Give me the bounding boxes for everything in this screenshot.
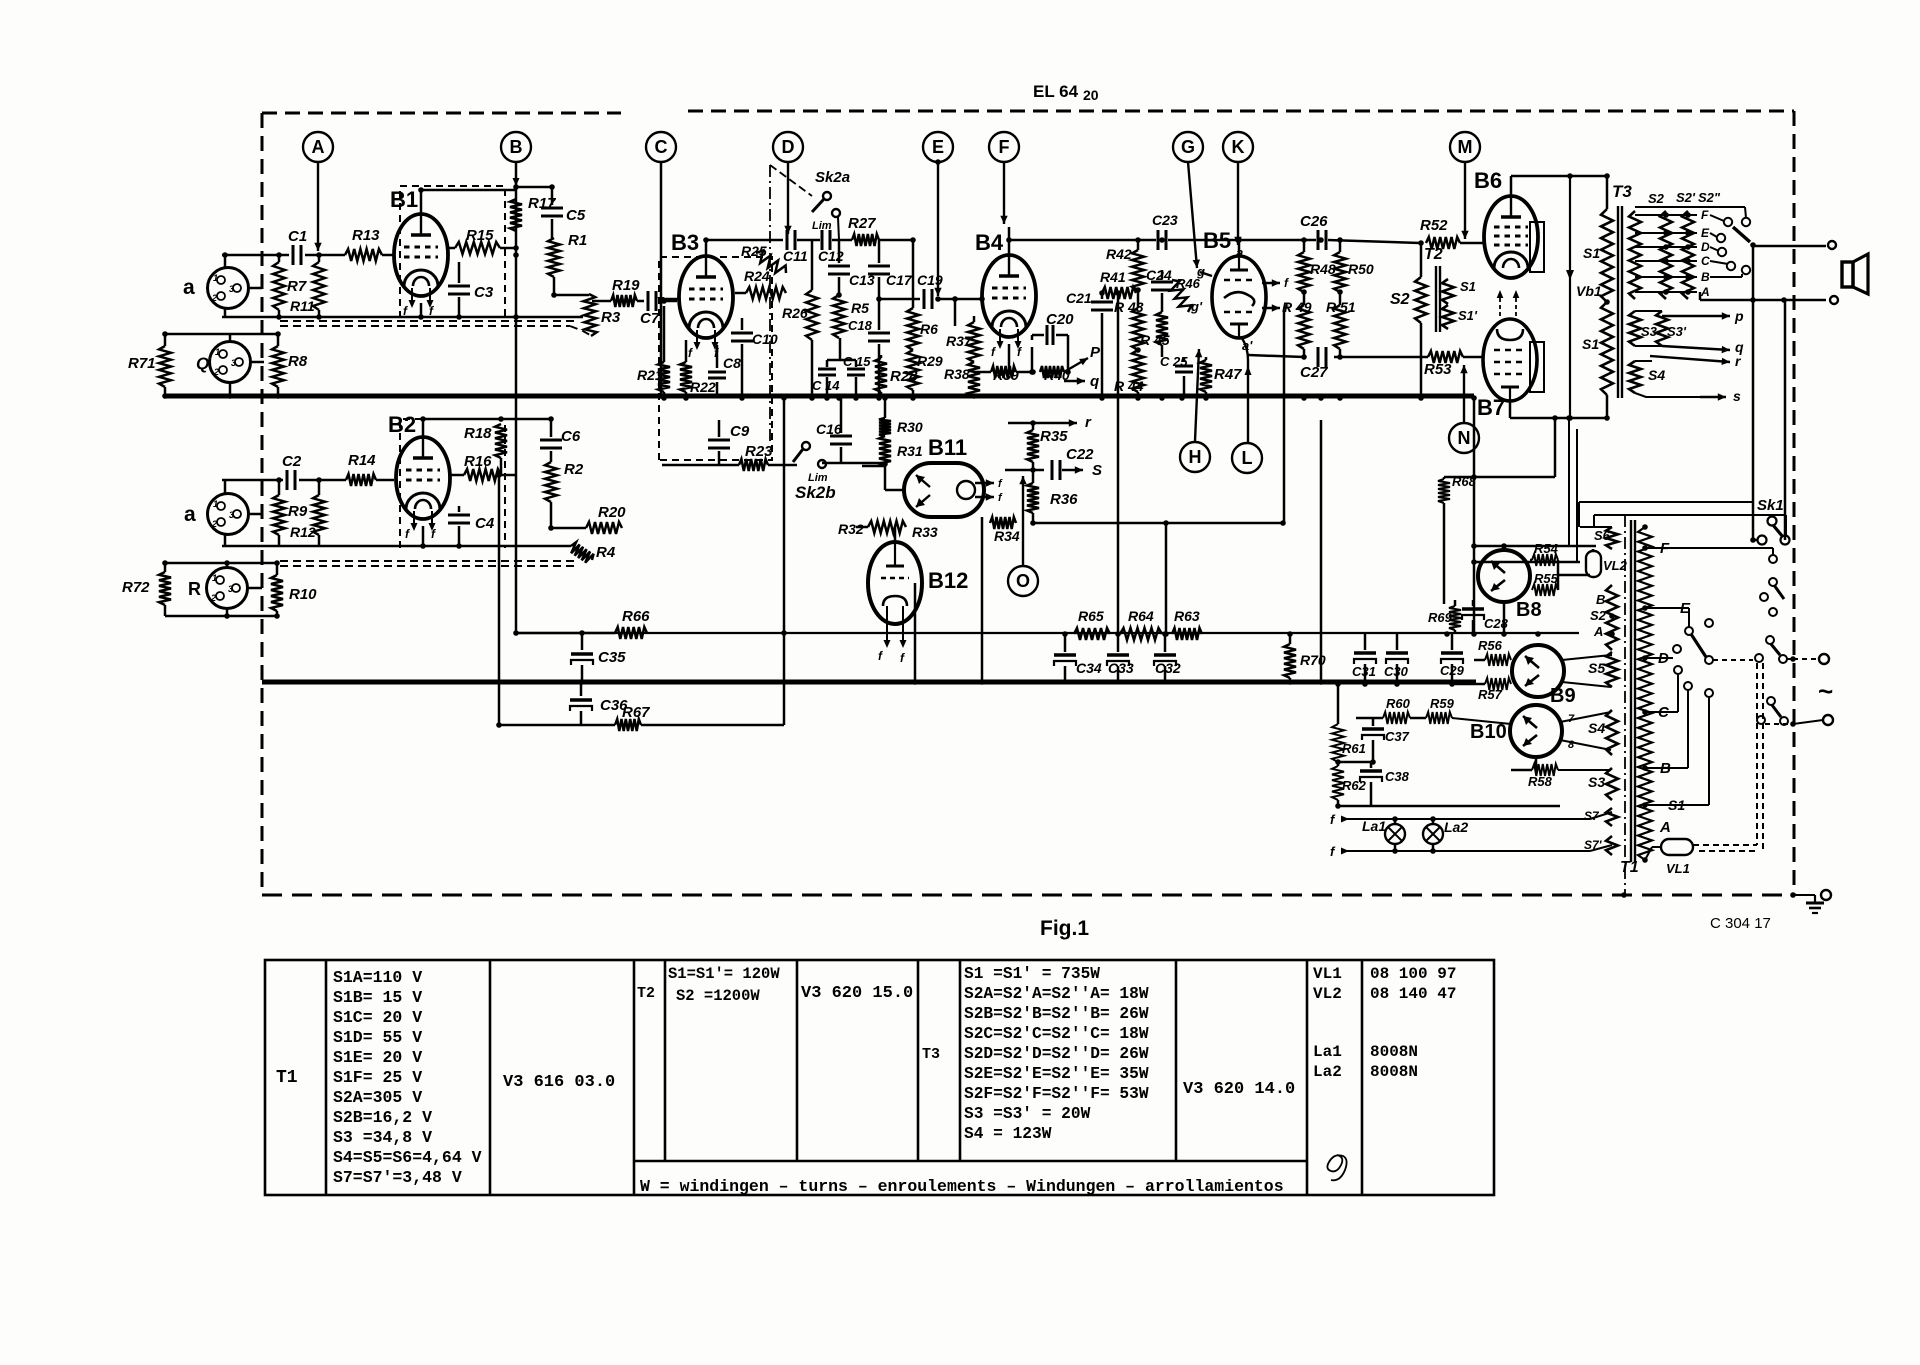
svg-text:EL 64: EL 64 [1033, 82, 1079, 101]
resistor R7 [278, 255, 281, 262]
ground symbol [1793, 894, 1815, 896]
svg-text:C36: C36 [600, 697, 628, 714]
svg-text:R29: R29 [917, 353, 943, 369]
wire y562 [1474, 561, 1580, 564]
svg-text:R59: R59 [1430, 696, 1455, 711]
svg-text:La2: La2 [1444, 819, 1468, 835]
svg-text:A: A [1659, 819, 1671, 836]
node B stem [515, 162, 518, 633]
svg-text:B4: B4 [975, 230, 1004, 255]
B6 beam plate rect [1530, 222, 1544, 272]
resistor R19 [592, 300, 611, 303]
svg-text:3: 3 [231, 358, 236, 368]
capacitor C8 [716, 345, 719, 368]
svg-text:La2: La2 [1313, 1063, 1342, 1081]
svg-text:S1D= 55 V: S1D= 55 V [333, 1028, 422, 1047]
svg-text:R70: R70 [1300, 652, 1326, 668]
resistor R33 [856, 526, 868, 529]
tube B1 [394, 214, 448, 318]
output selector contacts [1724, 218, 1732, 226]
svg-text:A: A [312, 137, 325, 157]
capacitor C17 [878, 240, 881, 263]
resistor R67 [615, 719, 641, 731]
svg-text:a: a [1236, 245, 1243, 260]
resistor R22 [685, 340, 688, 362]
svg-text:S4: S4 [1648, 367, 1665, 383]
svg-text:F: F [999, 137, 1010, 157]
capacitor C1 [292, 245, 295, 265]
resistor R4 [571, 542, 594, 563]
wire T1 tap E [1645, 607, 1689, 609]
resistor R35 [1027, 430, 1039, 462]
svg-text:B6: B6 [1474, 168, 1502, 193]
svg-text:C 15: C 15 [843, 354, 871, 369]
svg-text:D: D [1701, 240, 1710, 254]
arrow q [1064, 380, 1085, 382]
svg-text:~: ~ [1818, 676, 1833, 706]
resistor R15 [448, 247, 455, 250]
svg-text:S4: S4 [1588, 720, 1605, 736]
vertical output wires down [1752, 246, 1755, 540]
svg-text:S3 =S3' = 20W: S3 =S3' = 20W [964, 1105, 1091, 1123]
wire T1 tap D [1645, 657, 1673, 659]
resistor R29 [907, 350, 919, 390]
capacitor C9 [718, 420, 721, 437]
svg-text:R36: R36 [1050, 491, 1078, 508]
capacitor C6 [550, 419, 553, 437]
resistor R23 [662, 464, 739, 467]
resistor R47 [1205, 357, 1208, 360]
svg-text:C1: C1 [288, 228, 307, 245]
node A [303, 132, 333, 162]
capacitor C10 [741, 318, 744, 330]
svg-text:S1A=110 V: S1A=110 V [333, 968, 422, 987]
svg-text:1: 1 [212, 573, 217, 583]
resistor R37 [973, 316, 976, 322]
svg-text:R28: R28 [890, 368, 918, 385]
svg-text:S6: S6 [1594, 528, 1611, 543]
dashed box B3 [659, 257, 772, 460]
resistor R50 [1339, 240, 1342, 252]
svg-text:Q: Q [196, 354, 209, 373]
svg-text:C30: C30 [1384, 664, 1409, 679]
svg-text:B1: B1 [390, 187, 418, 212]
svg-text:N: N [1458, 428, 1471, 448]
lower supply bus y=682 [262, 680, 1476, 685]
resistor R40 [1040, 366, 1064, 378]
svg-text:Sk1: Sk1 [1757, 497, 1784, 514]
lamp La1 [1385, 824, 1405, 844]
svg-text:R22: R22 [690, 379, 716, 395]
capacitor C5 [551, 187, 554, 205]
main bus 0V y=396 [165, 394, 1474, 399]
svg-text:R66: R66 [622, 608, 650, 625]
svg-text:p: p [1734, 308, 1744, 324]
resistor R55 [1532, 584, 1558, 596]
lamps rails [1350, 818, 1590, 820]
resistor R46 [1171, 280, 1192, 312]
data table [265, 960, 1494, 1195]
capacitor C37 [1372, 718, 1375, 726]
svg-text:R6: R6 [920, 321, 938, 337]
svg-text:R54: R54 [1534, 541, 1559, 556]
svg-text:R37: R37 [946, 333, 973, 349]
dashed enclosure border [262, 112, 621, 115]
svg-text:VL2: VL2 [1313, 985, 1342, 1003]
svg-text:a: a [183, 276, 195, 299]
svg-text:S1F= 25 V: S1F= 25 V [333, 1068, 422, 1087]
wire y357 [1248, 355, 1304, 357]
svg-text:W = windingen – turns – enroul: W = windingen – turns – enroulements – W… [640, 1177, 1284, 1196]
svg-text:1: 1 [213, 499, 218, 509]
node M [1450, 132, 1480, 162]
capacitor C3 [458, 262, 461, 283]
svg-text:B: B [1701, 270, 1710, 284]
B6 B7 filament dashed arrows [1499, 296, 1501, 316]
svg-text:R23: R23 [745, 443, 773, 460]
svg-text:R25: R25 [741, 243, 767, 259]
svg-text:R60: R60 [1386, 696, 1411, 711]
wire T1 tap F [1645, 547, 1773, 549]
wire B3 grid [661, 298, 679, 301]
capacitor C32 [1164, 634, 1167, 652]
T3 secondary S2 columns [1629, 211, 1641, 299]
resistor R39 [974, 371, 991, 374]
wire B3 plate top [705, 240, 708, 256]
svg-text:S5: S5 [1588, 660, 1605, 676]
resistor R16 [451, 474, 464, 477]
wire y806 [1338, 805, 1560, 808]
svg-text:R41: R41 [1100, 269, 1126, 285]
svg-text:C32: C32 [1155, 660, 1181, 676]
node O stem [1022, 476, 1024, 565]
resistor R9 [278, 480, 281, 495]
vertical x784 [783, 398, 786, 725]
capacitor C29 [1451, 634, 1454, 650]
svg-text:B8: B8 [1516, 599, 1542, 621]
svg-text:C 25: C 25 [1160, 354, 1188, 369]
capacitor C27 [1317, 347, 1320, 367]
node E stem [937, 162, 939, 296]
svg-text:S7=S7'=3,48 V: S7=S7'=3,48 V [333, 1168, 462, 1187]
resistor R24 [735, 292, 746, 295]
mech dash-dot link Sk2 [769, 165, 771, 445]
svg-text:S2F=S2'F=S2''F= 53W: S2F=S2'F=S2''F= 53W [964, 1085, 1149, 1103]
svg-text:C6: C6 [561, 428, 581, 445]
svg-text:C 304 17: C 304 17 [1710, 915, 1771, 932]
resistor R71 [159, 346, 171, 387]
svg-text:R26: R26 [782, 305, 808, 321]
resistor R5 [833, 295, 845, 338]
tube B5 [1212, 256, 1266, 338]
capacitor C28 [1472, 600, 1475, 606]
svg-text:R30: R30 [897, 419, 923, 435]
resistor R43 [1137, 290, 1140, 308]
svg-text:S2B=S2'B=S2''B= 26W: S2B=S2'B=S2''B= 26W [964, 1005, 1149, 1023]
VL2 [1586, 551, 1601, 577]
wire B1 plate to top [420, 190, 423, 214]
svg-text:B: B [1596, 592, 1605, 607]
resistor R18 [495, 424, 507, 458]
resistor R48 [1303, 240, 1306, 252]
wire Q block [165, 333, 278, 336]
svg-text:B3: B3 [671, 230, 699, 255]
svg-text:C22: C22 [1066, 446, 1094, 463]
svg-text:C19: C19 [917, 272, 943, 288]
svg-text:C20: C20 [1046, 311, 1074, 328]
wire T1 tap B [1645, 767, 1688, 769]
capacitor C14 [826, 360, 829, 367]
svg-text:T1: T1 [1620, 859, 1639, 876]
svg-text:H: H [1189, 447, 1202, 467]
wire S out [1005, 469, 1044, 472]
node H stem [1195, 349, 1199, 441]
resistor R61 [1337, 684, 1340, 724]
tube B2 [396, 437, 450, 541]
svg-text:C11: C11 [783, 248, 808, 264]
node G stem [1188, 162, 1197, 268]
svg-text:g': g' [1190, 299, 1203, 314]
node C stem [660, 162, 663, 396]
capacitor C2 [286, 470, 289, 490]
node B [501, 132, 531, 162]
svg-text:C37: C37 [1385, 729, 1410, 744]
switch Sk2b [802, 442, 810, 450]
svg-text:C16: C16 [816, 421, 842, 437]
resistor R64 [1120, 628, 1162, 640]
svg-text:R69: R69 [1428, 610, 1453, 625]
capacitor C15 [839, 338, 842, 360]
svg-text:R10: R10 [289, 586, 317, 603]
lamp La2 [1423, 824, 1443, 844]
wire ch2 cathode rail y=546 [222, 545, 571, 548]
svg-text:P: P [1090, 344, 1101, 361]
wire output bottom y300 [1700, 299, 1826, 302]
svg-text:R39: R39 [993, 367, 1019, 383]
resistor R1 [548, 238, 560, 277]
svg-text:C5: C5 [566, 207, 586, 224]
svg-text:C4: C4 [475, 515, 495, 532]
svg-text:S2A=S2'A=S2''A= 18W: S2A=S2'A=S2''A= 18W [964, 985, 1149, 1003]
tube B8 [1478, 550, 1530, 602]
capacitor C24 [1161, 270, 1164, 279]
svg-text:R62: R62 [1342, 778, 1367, 793]
svg-text:R55: R55 [1534, 571, 1559, 586]
svg-text:1: 1 [213, 273, 218, 283]
svg-text:R27: R27 [848, 215, 876, 232]
svg-text:VL1: VL1 [1666, 861, 1690, 876]
tube B9 [1512, 645, 1564, 697]
resistor R60 [1356, 717, 1383, 720]
wire r arrow [1008, 422, 1033, 425]
resistor R31 [884, 398, 887, 418]
wire B7 plate bottom [1509, 401, 1512, 418]
svg-text:R56: R56 [1478, 638, 1503, 653]
resistor R11 [318, 255, 321, 262]
resistor R51 [1339, 292, 1342, 305]
capacitor C23 [1157, 230, 1160, 250]
svg-text:8: 8 [1568, 739, 1575, 751]
wire x1474 [1473, 398, 1476, 634]
svg-text:G: G [1181, 137, 1195, 157]
connector Q (ch1 aux input) [210, 342, 251, 383]
resistor R54 [1530, 559, 1532, 562]
svg-text:C31: C31 [1352, 664, 1376, 679]
node F [989, 132, 1019, 162]
svg-text:C17: C17 [886, 272, 913, 288]
wire B1 cathode stub [420, 303, 423, 317]
VL1 [1661, 839, 1693, 855]
node A stem [317, 162, 319, 251]
svg-text:C34: C34 [1076, 660, 1102, 676]
resistor R57 [1452, 683, 1485, 686]
resistor R8 [277, 334, 280, 346]
svg-text:C33: C33 [1108, 660, 1134, 676]
capacitor C25 [1183, 357, 1186, 362]
resistor R68 [1443, 477, 1446, 479]
svg-text:C27: C27 [1300, 364, 1328, 381]
svg-text:S1: S1 [1582, 336, 1599, 352]
resistor R44 [1132, 350, 1144, 392]
svg-text:1: 1 [215, 347, 220, 357]
wire B11 left [862, 465, 885, 468]
svg-text:S2A=305 V: S2A=305 V [333, 1088, 422, 1107]
wire to speaker terminal top [1752, 245, 1826, 248]
svg-text:S1': S1' [1458, 308, 1478, 323]
capacitor C13 [838, 240, 841, 263]
svg-text:C: C [1701, 254, 1710, 268]
resistor R17 (on B stem) [510, 199, 522, 231]
capacitor C36 [580, 682, 583, 696]
svg-text:08 100 97: 08 100 97 [1370, 965, 1456, 983]
svg-text:3: 3 [228, 584, 233, 594]
svg-text:R64: R64 [1128, 608, 1154, 624]
resistor R21 [663, 306, 666, 362]
resistor R34 [990, 517, 1016, 529]
svg-text:R61: R61 [1342, 741, 1366, 756]
node O [1008, 566, 1038, 596]
vertical from R18 area down to R67 wire [498, 470, 501, 725]
svg-text:R: R [188, 579, 201, 599]
capacitor C26 [1317, 230, 1320, 250]
svg-text:s: s [1733, 388, 1741, 404]
svg-text:2: 2 [211, 519, 217, 529]
resistor R41 [1102, 287, 1136, 299]
wire B12 top stub [894, 527, 897, 543]
svg-text:R13: R13 [352, 227, 380, 244]
resistor R25 [756, 251, 786, 274]
svg-text:S3: S3 [1588, 774, 1605, 790]
flourish glyph [1327, 1155, 1346, 1180]
svg-text:B7: B7 [1477, 395, 1505, 420]
svg-text:R4: R4 [596, 544, 616, 561]
svg-text:R8: R8 [288, 353, 308, 370]
capacitor C20 [1031, 347, 1034, 372]
wire coupling y=299 [879, 298, 920, 301]
svg-text:R9: R9 [288, 503, 308, 520]
svg-text:C18: C18 [848, 318, 873, 333]
wire vertical x1166 [1165, 523, 1168, 634]
tube B4 [982, 255, 1036, 359]
resistor R38 [968, 362, 980, 396]
connector a (ch1 input) [208, 268, 249, 309]
svg-text:B12: B12 [928, 568, 968, 593]
wire B8 top/bottom [1503, 546, 1506, 550]
svg-text:S2E=S2'E=S2''E= 35W: S2E=S2'E=S2''E= 35W [964, 1065, 1149, 1083]
svg-text:V3 620 14.0: V3 620 14.0 [1183, 1080, 1295, 1099]
svg-text:8008N: 8008N [1370, 1063, 1418, 1081]
T3 S3 winding [1629, 311, 1641, 346]
node K stem [1237, 162, 1239, 245]
resistor R27 [852, 234, 879, 246]
svg-text:C: C [655, 137, 668, 157]
wire y502 [1579, 501, 1753, 503]
wire y=633 [514, 632, 1579, 634]
svg-text:S1: S1 [1460, 279, 1476, 294]
capacitor C21 [1101, 293, 1104, 299]
speaker [1842, 262, 1853, 287]
resistor R72 [159, 572, 171, 605]
wire B12 right down [914, 583, 917, 682]
svg-text:R20: R20 [598, 504, 626, 521]
capacitor C38 [1370, 762, 1373, 768]
capacitor C18 [868, 332, 890, 335]
svg-text:T2: T2 [1424, 246, 1443, 263]
svg-text:Fig.1: Fig.1 [1040, 917, 1089, 940]
svg-text:2: 2 [210, 593, 216, 603]
svg-text:R18: R18 [464, 425, 492, 442]
tube B6 [1484, 196, 1538, 278]
tube B12 [868, 542, 922, 624]
node H [1180, 442, 1210, 472]
resistor R12 [318, 480, 321, 495]
mains switch lower [1767, 697, 1775, 705]
svg-text:T3: T3 [1612, 182, 1632, 201]
svg-text:R 49: R 49 [1282, 299, 1312, 315]
svg-text:B2: B2 [388, 412, 416, 437]
wire B5 a-prime lead down to node L [1242, 338, 1248, 443]
svg-text:S2D=S2'D=S2''D= 26W: S2D=S2'D=S2''D= 26W [964, 1045, 1149, 1063]
svg-text:S2: S2 [1648, 191, 1665, 206]
svg-text:F: F [1701, 208, 1709, 222]
wire ch2 input loop [224, 480, 227, 494]
node K [1223, 132, 1253, 162]
wire B5 g lead [1200, 272, 1212, 276]
resistor R58 [1532, 764, 1558, 776]
T3 S4 winding [1629, 361, 1641, 393]
svg-text:La1: La1 [1362, 818, 1386, 834]
node N stem [1463, 365, 1465, 423]
svg-text:C29: C29 [1440, 663, 1465, 678]
selector wiper [1733, 227, 1750, 242]
capacitor C4 [458, 506, 461, 512]
svg-text:C21: C21 [1066, 290, 1092, 306]
capacitor C16 [840, 398, 843, 433]
svg-text:S2: S2 [1390, 291, 1410, 308]
connector a (ch2 input) [208, 494, 249, 535]
node E [923, 132, 953, 162]
svg-text:E: E [932, 137, 944, 157]
svg-text:M: M [1458, 137, 1473, 157]
svg-text:O: O [1016, 571, 1030, 591]
resistor R59 [1426, 712, 1452, 724]
resistor R63 [1172, 628, 1202, 640]
svg-text:S4 = 123W: S4 = 123W [964, 1125, 1052, 1143]
svg-text:S1 =S1' = 735W: S1 =S1' = 735W [964, 965, 1100, 983]
svg-text:Vb1: Vb1 [1576, 283, 1602, 299]
B10 to T1 [1560, 712, 1611, 722]
svg-text:2: 2 [213, 367, 219, 377]
